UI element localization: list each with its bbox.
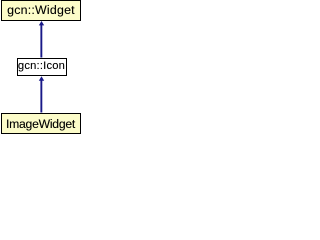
arrow ImageWidget to gcn::Icon : head bbox=[39, 76, 44, 81]
arrow gcn::Icon to gcn::Widget : head bbox=[39, 21, 44, 25]
arrow ImageWidget to gcn::Icon : shaft bbox=[40, 80, 42, 113]
inheritance arrows bbox=[0, 0, 83, 136]
class box gcn::Widget bbox=[1, 0, 81, 21]
class box ImageWidget bbox=[1, 113, 81, 134]
arrow gcn::Icon to gcn::Widget : shaft bbox=[40, 24, 42, 58]
class box gcn::Icon (focal, white) bbox=[17, 58, 67, 76]
